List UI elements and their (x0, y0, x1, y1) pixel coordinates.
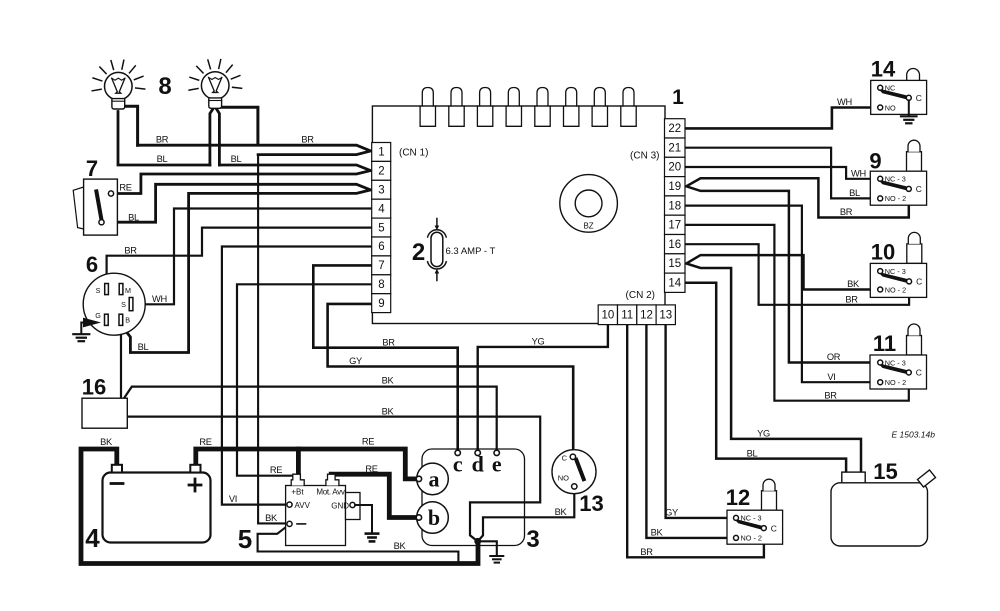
svg-text:(CN 3): (CN 3) (630, 150, 659, 161)
svg-text:14: 14 (871, 57, 896, 82)
svg-text:NC - 3: NC - 3 (885, 175, 906, 184)
svg-text:BK: BK (847, 279, 860, 289)
svg-text:BR: BR (124, 245, 137, 255)
svg-text:6.3 AMP - T: 6.3 AMP - T (446, 246, 496, 257)
svg-text:BK: BK (265, 513, 278, 523)
svg-text:WH: WH (837, 97, 852, 107)
svg-text:C: C (916, 184, 922, 194)
svg-text:C: C (916, 93, 922, 103)
svg-text:7: 7 (86, 156, 98, 181)
svg-text:7: 7 (378, 260, 384, 272)
svg-text:BZ: BZ (583, 222, 593, 231)
svg-text:BR: BR (640, 547, 653, 557)
svg-text:M: M (125, 286, 131, 295)
svg-text:BK: BK (382, 376, 395, 386)
svg-text:RE: RE (365, 464, 377, 474)
svg-text:NC: NC (885, 84, 896, 93)
svg-text:BR: BR (845, 295, 858, 305)
svg-text:BR: BR (824, 390, 837, 400)
svg-text:(CN 2): (CN 2) (626, 290, 655, 301)
svg-text:17: 17 (668, 220, 681, 232)
svg-text:22: 22 (668, 123, 681, 135)
svg-text:d: d (472, 452, 484, 477)
svg-text:NO - 2: NO - 2 (885, 378, 907, 387)
svg-text:12: 12 (726, 485, 750, 510)
svg-text:RE: RE (199, 437, 211, 447)
svg-text:BL: BL (138, 342, 149, 352)
svg-text:VI: VI (229, 494, 237, 504)
svg-text:a: a (429, 467, 440, 492)
svg-text:WH: WH (152, 294, 167, 304)
svg-text:14: 14 (668, 278, 681, 290)
svg-text:1: 1 (378, 147, 384, 159)
svg-text:6: 6 (86, 252, 98, 277)
svg-text:BL: BL (747, 448, 758, 458)
svg-text:YG: YG (757, 429, 770, 439)
svg-text:OR: OR (827, 352, 841, 362)
svg-text:1: 1 (672, 86, 684, 109)
svg-text:GY: GY (665, 508, 678, 518)
svg-text:NC - 3: NC - 3 (885, 358, 906, 367)
svg-text:10: 10 (602, 310, 615, 322)
svg-text:b: b (428, 505, 440, 530)
svg-text:3: 3 (526, 526, 539, 553)
svg-text:BK: BK (382, 406, 395, 416)
svg-text:WH: WH (851, 168, 866, 178)
svg-text:21: 21 (668, 142, 681, 154)
svg-text:NC - 3: NC - 3 (741, 514, 762, 523)
svg-text:RE: RE (119, 183, 131, 193)
svg-text:9: 9 (378, 298, 384, 310)
svg-text:NO: NO (558, 474, 569, 483)
svg-text:C: C (771, 523, 777, 533)
svg-text:19: 19 (668, 181, 681, 193)
svg-text:BL: BL (849, 188, 860, 198)
svg-text:15: 15 (668, 258, 681, 270)
svg-text:S: S (121, 300, 126, 309)
svg-text:BK: BK (394, 541, 407, 551)
svg-text:8: 8 (158, 73, 171, 100)
svg-text:E 1503.14b: E 1503.14b (892, 430, 936, 440)
svg-text:B: B (125, 315, 130, 324)
svg-text:BL: BL (231, 154, 242, 164)
svg-text:S: S (96, 286, 101, 295)
svg-text:2: 2 (412, 239, 425, 266)
svg-text:3: 3 (378, 185, 384, 197)
svg-text:NO - 2: NO - 2 (885, 194, 907, 203)
svg-text:C: C (916, 277, 922, 287)
svg-text:C: C (916, 368, 922, 378)
svg-text:BR: BR (840, 207, 853, 217)
svg-text:4: 4 (378, 203, 385, 215)
svg-text:9: 9 (869, 148, 881, 173)
svg-text:e: e (492, 452, 502, 477)
svg-text:RE: RE (362, 437, 374, 447)
svg-text:5: 5 (238, 524, 252, 554)
svg-text:10: 10 (871, 240, 895, 265)
svg-text:GY: GY (349, 356, 362, 366)
svg-text:NC - 3: NC - 3 (885, 267, 906, 276)
svg-text:+Bt: +Bt (291, 488, 304, 497)
svg-text:5: 5 (378, 222, 384, 234)
svg-text:RE: RE (270, 465, 282, 475)
svg-text:16: 16 (668, 239, 681, 251)
svg-text:NO - 2: NO - 2 (885, 285, 907, 294)
svg-text:BR: BR (301, 135, 314, 145)
svg-text:15: 15 (873, 459, 897, 484)
svg-text:8: 8 (378, 279, 384, 291)
svg-text:13: 13 (579, 491, 603, 516)
svg-text:c: c (453, 452, 463, 477)
svg-text:13: 13 (659, 310, 672, 322)
svg-text:YG: YG (532, 337, 545, 347)
svg-text:BK: BK (651, 528, 664, 538)
svg-text:16: 16 (82, 375, 106, 400)
svg-text:18: 18 (668, 200, 681, 212)
svg-text:12: 12 (640, 310, 653, 322)
svg-text:BL: BL (157, 154, 168, 164)
svg-text:Mot. Avv: Mot. Avv (316, 488, 344, 497)
svg-text:C: C (562, 454, 568, 463)
svg-text:(CN 1): (CN 1) (399, 148, 428, 159)
svg-text:6: 6 (378, 241, 384, 253)
svg-text:BK: BK (100, 437, 113, 447)
svg-text:AVV: AVV (295, 501, 311, 510)
svg-text:BR: BR (382, 337, 395, 347)
svg-text:VI: VI (827, 372, 835, 382)
svg-text:11: 11 (621, 310, 633, 322)
svg-text:G: G (95, 311, 101, 320)
svg-text:4: 4 (85, 523, 100, 553)
svg-text:BK: BK (555, 507, 568, 517)
svg-text:BR: BR (156, 135, 169, 145)
svg-text:20: 20 (668, 162, 681, 174)
svg-text:BL: BL (128, 212, 139, 222)
svg-text:11: 11 (873, 331, 896, 356)
svg-text:2: 2 (378, 166, 384, 178)
svg-text:NO - 2: NO - 2 (741, 534, 763, 543)
svg-text:NO: NO (885, 103, 896, 112)
svg-text:GND: GND (331, 501, 349, 510)
